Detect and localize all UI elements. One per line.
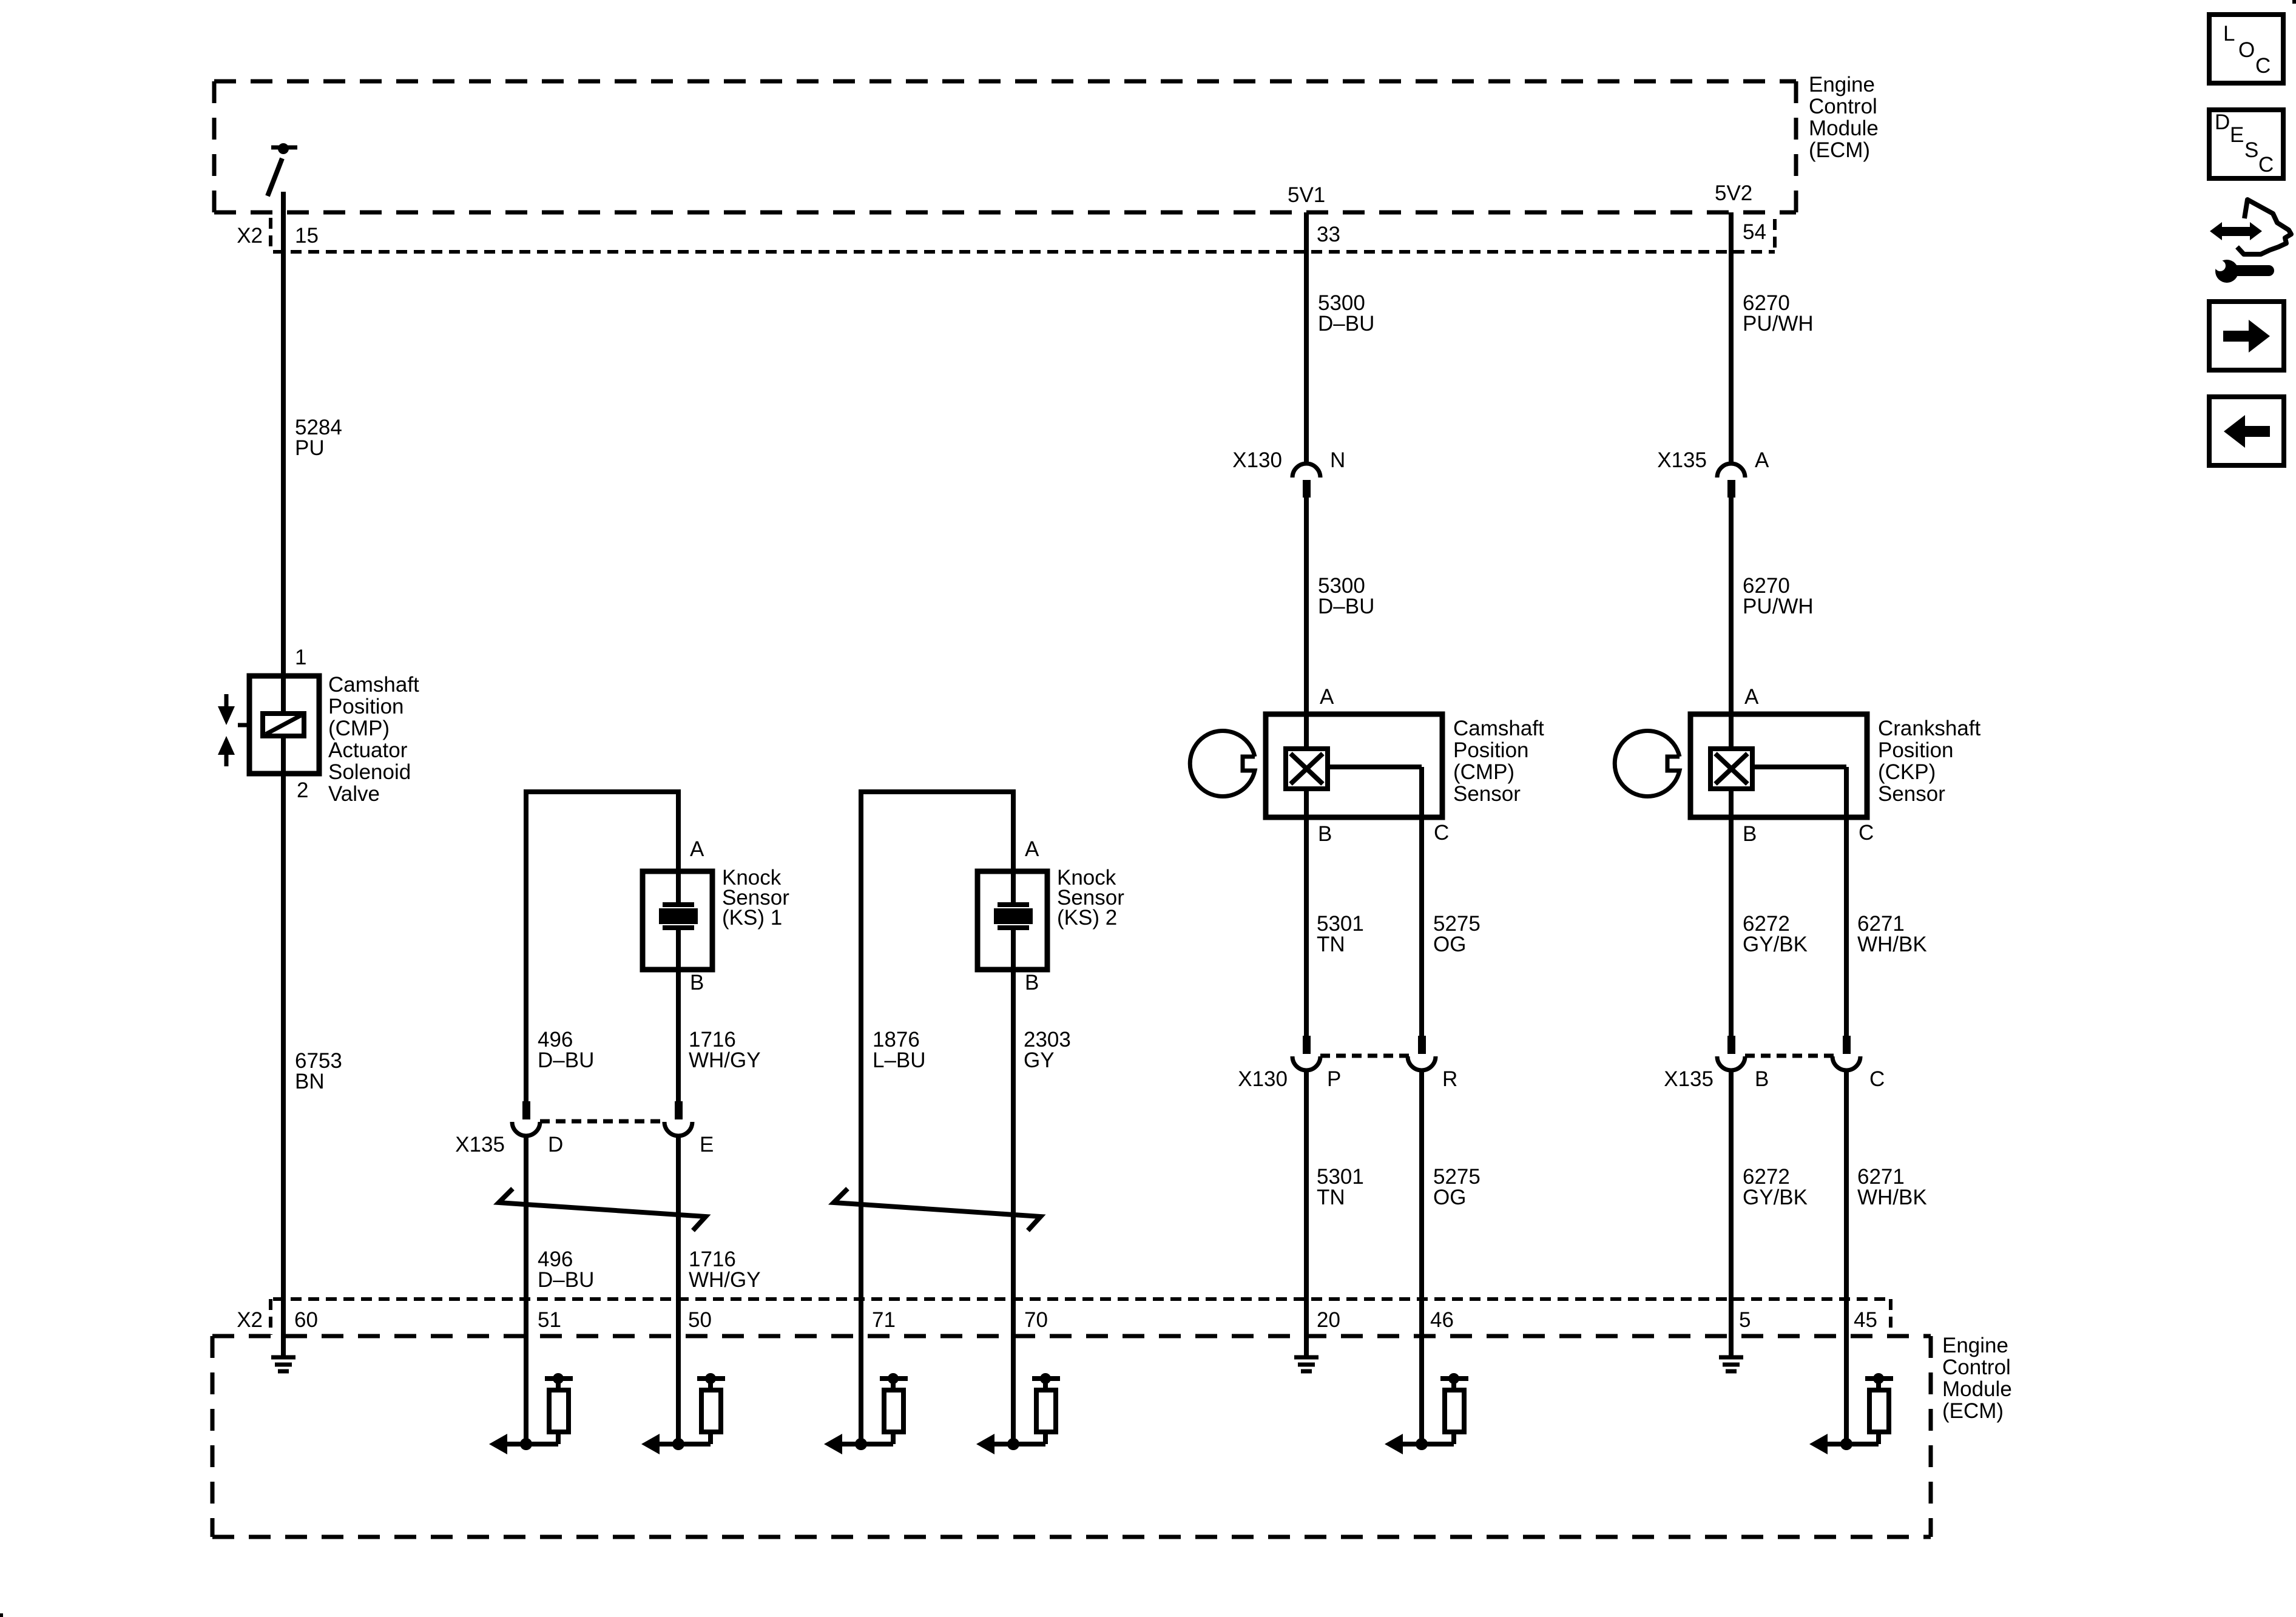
crankshaft position (CKP) sensor box — [1690, 714, 1867, 817]
knock sensor 2 name text — [1057, 866, 1124, 930]
connector terminal X135-B: male pin — [1727, 1036, 1735, 1054]
connector terminal X135-D: female cup — [512, 1122, 540, 1136]
solenoid coil — [263, 676, 304, 774]
svg-text:C: C — [2258, 153, 2274, 177]
camshaft position (CMP) sensor name text — [1453, 717, 1544, 806]
svg-text:WH/GY: WH/GY — [689, 1268, 761, 1292]
svg-text:D: D — [548, 1133, 563, 1156]
svg-text:S: S — [2244, 138, 2258, 162]
wire segment to ECM internal node (50) — [676, 1299, 681, 1444]
wire: ECM pin 54 (5V2) to X135-A (circuit 6270 PU/WH) — [1729, 212, 1734, 465]
wire label 6270 PU/WH (lower) — [1743, 574, 1814, 618]
junction dot at pin 70 node — [1007, 1438, 1019, 1450]
ground symbol (ECM pin 5) — [1719, 1336, 1743, 1371]
connector terminal X135-E: female cup — [664, 1122, 692, 1136]
wire: ECM pin 33 (5V1) to X130-N (circuit 5300 D-BU) — [1304, 212, 1309, 465]
knock sensor 1 name text — [722, 866, 789, 930]
wire: X130-R to ECM pin 46 — [1419, 1070, 1424, 1299]
svg-text:51: 51 — [538, 1308, 561, 1332]
ECM X2 connector band (top) — [271, 218, 1775, 252]
svg-text:B: B — [1755, 1067, 1769, 1091]
wire label 5300 D-BU (upper) — [1318, 291, 1374, 336]
svg-text:Module: Module — [1809, 116, 1879, 140]
svg-text:(KS) 2: (KS) 2 — [1057, 906, 1117, 930]
wire label 5301 TN (upper) — [1317, 912, 1364, 956]
connector terminal X135-B: female cup — [1717, 1056, 1745, 1070]
svg-text:C: C — [1869, 1067, 1885, 1091]
wire label 6270 PU/WH (upper) — [1743, 291, 1814, 336]
svg-text:C: C — [2255, 54, 2271, 78]
svg-text:5V1: 5V1 — [1288, 183, 1325, 207]
svg-text:70: 70 — [1024, 1308, 1048, 1332]
wire: X135-C to ECM pin 45 — [1844, 1070, 1849, 1299]
svg-text:Camshaft: Camshaft — [1453, 717, 1544, 740]
svg-text:D–BU: D–BU — [538, 1268, 594, 1292]
svg-text:GY/BK: GY/BK — [1743, 933, 1808, 956]
wire: CKP pin B to X135-B (circuit 6272 GY/BK) — [1729, 817, 1734, 1036]
connector terminal X130-P: male pin — [1303, 1036, 1311, 1054]
wire label 5300 D-BU (lower) — [1318, 574, 1374, 618]
svg-text:D–BU: D–BU — [1318, 595, 1374, 618]
crankshaft position (CKP) sensor pickup element (X in square) — [1710, 749, 1752, 789]
wire label 6272 GY/BK (lower) — [1743, 1165, 1808, 1209]
connector terminal X130-N: female dome — [1292, 464, 1320, 478]
wire segment to ECM internal node (45) — [1844, 1299, 1849, 1444]
svg-text:D–BU: D–BU — [1318, 312, 1374, 336]
svg-text:Sensor: Sensor — [1878, 782, 1945, 806]
back navigation icon — [2209, 397, 2284, 465]
svg-text:PU/WH: PU/WH — [1743, 595, 1814, 618]
connector terminal X135-C: male pin — [1843, 1036, 1851, 1054]
svg-text:Engine: Engine — [1942, 1334, 2008, 1357]
ground symbol (ECM pin 20) — [1294, 1336, 1319, 1371]
svg-text:Sensor: Sensor — [1453, 782, 1521, 806]
ground symbol (ECM pin 60) — [271, 1336, 295, 1371]
ECM internal pull resistor at pin 45 — [1865, 1373, 1893, 1444]
svg-text:5V2: 5V2 — [1715, 181, 1752, 205]
svg-text:D: D — [2215, 110, 2230, 134]
connector terminal X135-E: male pin — [675, 1101, 683, 1119]
svg-text:54: 54 — [1743, 220, 1766, 244]
ECM internal pull resistor at pin 70 — [1032, 1373, 1060, 1444]
svg-text:C: C — [1434, 821, 1449, 845]
ECM output driver switch — [268, 143, 297, 196]
wire label 496 D-BU (lower) — [538, 1247, 594, 1292]
svg-text:Valve: Valve — [328, 782, 380, 806]
Engine Control Module (ECM) bottom box — [212, 1336, 1931, 1537]
wire label 5275 OG (lower) — [1433, 1165, 1481, 1209]
connector terminal X135-A: female dome — [1717, 464, 1745, 478]
svg-text:O: O — [2238, 38, 2255, 62]
svg-text:2: 2 — [297, 778, 308, 802]
svg-text:33: 33 — [1317, 223, 1340, 246]
wire: CKP pin C to X135-C (circuit 6271 WH/BK) — [1844, 817, 1849, 1036]
svg-text:X130: X130 — [1232, 448, 1282, 472]
ECM internal signal arrow at pin 45 — [1809, 1434, 1879, 1454]
ECM top box label — [1809, 73, 1879, 162]
connector terminal X130-R: male pin — [1418, 1036, 1426, 1054]
wire: solenoid pin 2 to ECM pin 60 (circuit 6753 BN) — [281, 774, 286, 1336]
svg-text:R: R — [1442, 1067, 1457, 1091]
LOC navigation icon — [2209, 15, 2283, 83]
connector terminal X135-A: male pin — [1727, 480, 1735, 498]
connector terminal X130-P: female cup — [1292, 1056, 1320, 1070]
svg-text:N: N — [1330, 448, 1345, 472]
wire label 6271 WH/BK (lower) — [1857, 1165, 1927, 1209]
connector X135 B-C mating dashed link — [1745, 1054, 1834, 1058]
svg-text:B: B — [1318, 822, 1332, 846]
connector terminal X130-R: female cup — [1408, 1056, 1436, 1070]
wire: KS2 pin B to ECM pin 70 — [1011, 970, 1016, 1444]
svg-text:20: 20 — [1317, 1308, 1340, 1332]
connector terminal X130-N: male pin — [1303, 480, 1311, 498]
svg-text:Crankshaft: Crankshaft — [1878, 717, 1981, 740]
ECM internal signal arrow at pin 50 — [641, 1434, 711, 1454]
svg-text:Engine: Engine — [1809, 73, 1875, 96]
camshaft position (CMP) sensor pickup element (X in square) — [1286, 749, 1328, 789]
Engine Control Module (ECM) top box — [214, 81, 1796, 212]
wire label 5301 TN (lower) — [1317, 1165, 1364, 1209]
svg-text:B: B — [690, 971, 704, 994]
twisted pair symbol (KS1 wires) — [499, 1189, 706, 1230]
knock sensor (KS) 1 box — [643, 871, 712, 970]
svg-text:(KS) 1: (KS) 1 — [722, 906, 782, 930]
wire: X130-N to CMP sensor pin A — [1304, 498, 1309, 714]
svg-text:Position: Position — [1878, 738, 1954, 762]
svg-text:C: C — [1859, 821, 1874, 845]
svg-text:45: 45 — [1854, 1308, 1877, 1332]
crankshaft position (CKP) sensor name text — [1878, 717, 1981, 806]
junction dot at pin 46 node — [1416, 1438, 1428, 1450]
svg-text:A: A — [1744, 685, 1759, 709]
ECM internal signal arrow at pin 70 — [976, 1434, 1045, 1454]
svg-text:A: A — [1755, 448, 1769, 472]
svg-text:GY/BK: GY/BK — [1743, 1186, 1808, 1209]
ECM internal pull resistor at pin 51 — [545, 1373, 573, 1444]
ECM internal signal arrow at pin 71 — [824, 1434, 893, 1454]
svg-text:(ECM): (ECM) — [1809, 138, 1870, 162]
connector X130 P-R mating dashed link — [1320, 1054, 1409, 1058]
svg-text:BN: BN — [295, 1070, 325, 1093]
diagnostic hand-and-wrench icon — [2210, 200, 2291, 283]
wire: KS2 branch top link — [859, 792, 1016, 1444]
wire label 6271 WH/BK (upper) — [1857, 912, 1927, 956]
svg-text:15: 15 — [295, 224, 319, 248]
svg-text:WH/BK: WH/BK — [1857, 1186, 1927, 1209]
svg-text:46: 46 — [1430, 1308, 1454, 1332]
svg-text:A: A — [690, 837, 704, 861]
ECM internal pull resistor at pin 46 — [1440, 1373, 1468, 1444]
svg-text:Module: Module — [1942, 1377, 2012, 1401]
junction dot at pin 71 node — [855, 1438, 867, 1450]
solenoid valve name text — [328, 673, 419, 806]
twisted pair symbol (KS2 wires) — [834, 1189, 1041, 1230]
crankshaft position (CKP) sensor reluctor wheel — [1615, 731, 1680, 797]
wire: X130-P to ECM pin 20 — [1304, 1070, 1309, 1336]
svg-text:5: 5 — [1739, 1308, 1751, 1332]
wire: CMP pin B to X130-P (circuit 5301 TN) — [1304, 817, 1309, 1036]
svg-text:Actuator: Actuator — [328, 738, 408, 762]
junction dot at pin 50 node — [672, 1438, 684, 1450]
wire label 1716 WH/GY (upper) — [689, 1028, 761, 1072]
svg-text:X135: X135 — [455, 1133, 505, 1156]
wire segment to ECM internal node (71) — [859, 1299, 863, 1444]
wire label 6753 BN — [295, 1049, 342, 1093]
svg-text:TN: TN — [1317, 1186, 1345, 1209]
svg-text:PU: PU — [295, 436, 325, 460]
wire: X135-A to CKP sensor pin A — [1729, 498, 1734, 714]
page corner mark (top right) — [2292, 0, 2296, 4]
svg-text:TN: TN — [1317, 933, 1345, 956]
svg-text:(CKP): (CKP) — [1878, 760, 1936, 784]
wire label 1716 WH/GY (lower) — [689, 1247, 761, 1292]
wire segment to ECM internal node (46) — [1419, 1299, 1424, 1444]
svg-text:Solenoid: Solenoid — [328, 760, 411, 784]
svg-text:Position: Position — [328, 695, 404, 718]
valve symbol (pinch valve) — [218, 694, 249, 766]
svg-text:E: E — [700, 1133, 714, 1156]
forward navigation icon — [2209, 302, 2284, 370]
camshaft position (CMP) actuator solenoid valve box — [249, 676, 319, 774]
svg-text:1: 1 — [295, 646, 306, 669]
svg-text:X2: X2 — [237, 224, 263, 248]
ECM internal signal arrow at pin 46 — [1385, 1434, 1454, 1454]
wire: X135-E to ECM pin 50 — [676, 1135, 681, 1444]
svg-text:A: A — [1025, 837, 1039, 861]
ECM bottom box label — [1942, 1334, 2012, 1423]
junction dot at pin 51 node — [520, 1438, 532, 1450]
svg-text:L: L — [2223, 22, 2235, 46]
wire: KS1 pin B down to connector — [676, 970, 681, 1101]
svg-text:Position: Position — [1453, 738, 1529, 762]
wire label 6272 GY/BK (upper) — [1743, 912, 1808, 956]
svg-text:WH/GY: WH/GY — [689, 1048, 761, 1072]
svg-text:B: B — [1743, 822, 1757, 846]
svg-text:X130: X130 — [1238, 1067, 1288, 1091]
knock sensor (KS) 2 box — [977, 871, 1047, 970]
knock sensor 2 piezo element — [994, 871, 1033, 970]
svg-text:(ECM): (ECM) — [1942, 1399, 2004, 1423]
svg-text:X2: X2 — [237, 1308, 263, 1332]
svg-text:Control: Control — [1809, 95, 1877, 118]
svg-text:E: E — [2230, 123, 2244, 147]
svg-text:GY: GY — [1024, 1048, 1055, 1072]
ECM internal pull resistor at pin 71 — [880, 1373, 908, 1444]
svg-text:(CMP): (CMP) — [1453, 760, 1514, 784]
connector terminal X135-D: male pin — [522, 1101, 530, 1119]
svg-text:D–BU: D–BU — [538, 1048, 594, 1072]
svg-text:OG: OG — [1433, 1186, 1466, 1209]
wire label 5284 PU — [295, 416, 342, 460]
wire: X135-D to ECM pin 51 — [524, 1135, 528, 1444]
wire segment to ECM internal node (51) — [524, 1299, 528, 1444]
wire: CMP pin C to X130-R (circuit 5275 OG) — [1419, 817, 1424, 1036]
wire segment to ECM internal node (70) — [1011, 1299, 1016, 1444]
connector terminal X135-C: female cup — [1832, 1056, 1860, 1070]
svg-text:P: P — [1327, 1067, 1341, 1091]
wire: X135-B to ECM pin 5 — [1729, 1070, 1734, 1336]
connector X135 D-E mating dashed link — [540, 1119, 665, 1124]
svg-text:X135: X135 — [1657, 448, 1707, 472]
svg-text:WH/BK: WH/BK — [1857, 933, 1927, 956]
ECM X2 connector band (bottom) — [271, 1299, 1891, 1335]
svg-text:50: 50 — [688, 1308, 712, 1332]
camshaft position (CMP) sensor reluctor wheel — [1190, 731, 1255, 797]
svg-text:Camshaft: Camshaft — [328, 673, 419, 697]
ECM internal signal arrow at pin 51 — [489, 1434, 558, 1454]
crankshaft position (CKP) sensor internal wiring — [1731, 714, 1846, 817]
wire label 496 D-BU (upper) — [538, 1028, 594, 1072]
camshaft position (CMP) sensor internal wiring — [1306, 714, 1422, 817]
DESC navigation icon — [2209, 110, 2283, 178]
wire label 1876 L-BU — [873, 1028, 926, 1072]
svg-text:(CMP): (CMP) — [328, 717, 390, 740]
ECM internal pull resistor at pin 50 — [697, 1373, 725, 1444]
wire label 2303 GY — [1024, 1028, 1071, 1072]
wire: KS1 branch top link — [524, 792, 681, 1101]
svg-text:PU/WH: PU/WH — [1743, 312, 1814, 336]
knock sensor 1 piezo element — [659, 871, 698, 970]
svg-text:A: A — [1320, 685, 1334, 709]
page corner mark (bottom left) — [0, 1613, 3, 1617]
junction dot at pin 45 node — [1840, 1438, 1852, 1450]
svg-text:Control: Control — [1942, 1355, 2011, 1379]
camshaft position (CMP) sensor box — [1266, 714, 1442, 817]
svg-text:71: 71 — [872, 1308, 896, 1332]
wire label 5275 OG (upper) — [1433, 912, 1481, 956]
svg-text:L–BU: L–BU — [873, 1048, 926, 1072]
svg-text:B: B — [1025, 971, 1039, 994]
svg-text:X135: X135 — [1664, 1067, 1714, 1091]
svg-text:OG: OG — [1433, 933, 1466, 956]
svg-text:60: 60 — [294, 1308, 318, 1332]
wire: ECM pin 15 to solenoid (circuit 5284 PU) — [281, 192, 286, 676]
